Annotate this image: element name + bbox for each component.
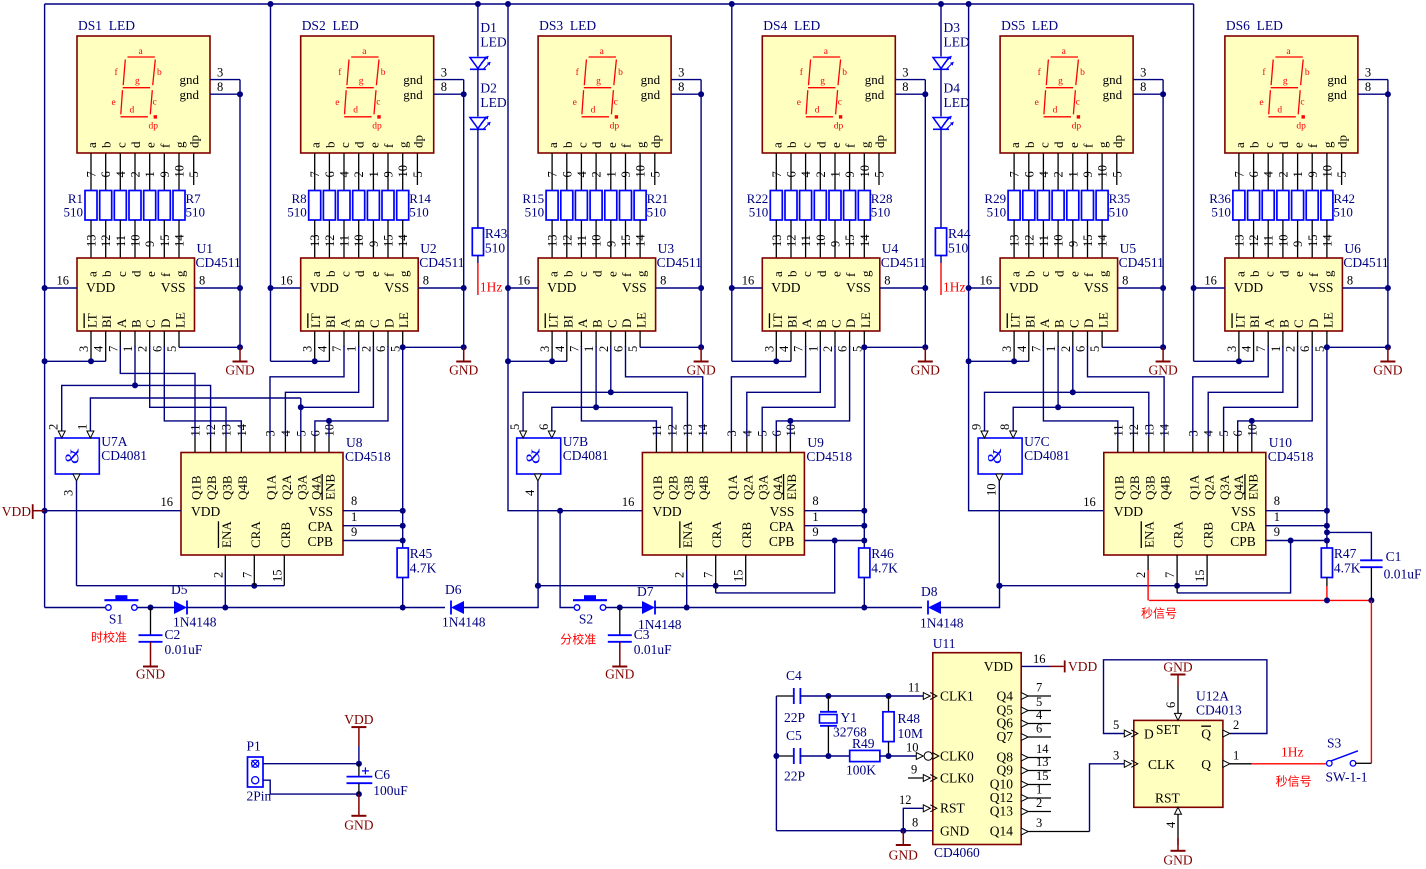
- wire Q3A riser: [300, 398, 302, 437]
- svg-text:g: g: [1283, 77, 1288, 87]
- svg-text:15: 15: [158, 235, 172, 248]
- wire C6 bottom lead: [358, 783, 360, 794]
- svg-text:GND: GND: [940, 824, 969, 839]
- svg-text:3: 3: [762, 346, 776, 352]
- svg-text:9: 9: [1291, 241, 1305, 247]
- svg-text:5: 5: [648, 171, 662, 177]
- junction: [237, 285, 243, 291]
- wire VDD: [45, 510, 181, 512]
- svg-text:3: 3: [538, 346, 552, 352]
- junction: [1324, 344, 1330, 350]
- wire display pin: [1116, 153, 1118, 185]
- pin arrow: [1021, 781, 1028, 788]
- svg-text:d: d: [1276, 141, 1291, 148]
- IC U3 CD4511: [538, 258, 656, 331]
- wire LT/BI tie: [732, 360, 791, 362]
- resistor R36: [1233, 191, 1245, 221]
- ground GND: [619, 642, 621, 667]
- svg-text:0.01uF: 0.01uF: [165, 642, 203, 657]
- svg-text:g: g: [858, 270, 873, 277]
- svg-text:7: 7: [308, 171, 322, 177]
- svg-text:LT: LT: [1232, 313, 1247, 328]
- pin arrow: [916, 753, 923, 760]
- wire display pin: [790, 153, 792, 191]
- wire display pin: [610, 153, 612, 191]
- wire LT/BI tie: [508, 360, 567, 362]
- svg-text:3: 3: [62, 490, 76, 496]
- wire gnd pin 8: [1358, 93, 1388, 95]
- wire: [138, 607, 175, 609]
- junction: [1160, 344, 1166, 350]
- resistor R17: [575, 191, 587, 221]
- junction: [1249, 418, 1255, 424]
- svg-text:f: f: [619, 143, 634, 148]
- svg-text:a: a: [546, 271, 561, 277]
- svg-text:秒信号: 秒信号: [1141, 607, 1177, 621]
- resistor R41: [1306, 191, 1318, 221]
- wire net D1: [164, 346, 241, 437]
- wire resistor pin: [610, 220, 612, 258]
- svg-text:b: b: [322, 142, 337, 149]
- svg-text:13: 13: [770, 235, 784, 248]
- svg-text:f: f: [381, 143, 396, 148]
- svg-text:CD4511: CD4511: [196, 255, 241, 270]
- junction: [900, 828, 906, 834]
- svg-text:2: 2: [1134, 572, 1148, 578]
- svg-text:d: d: [815, 106, 820, 116]
- svg-text:dp: dp: [1072, 122, 1082, 132]
- switch S3 SW-1-1: [1327, 761, 1333, 767]
- wire display pin: [1253, 153, 1255, 191]
- resistor R9: [323, 191, 335, 221]
- svg-text:g: g: [634, 270, 649, 277]
- wire net D2: [776, 346, 849, 437]
- wire resistor pin: [387, 220, 389, 258]
- svg-text:10: 10: [1052, 235, 1066, 248]
- wire CRA pin: [715, 555, 717, 593]
- wire pin stub: [819, 331, 821, 347]
- resistor R3: [114, 191, 126, 221]
- svg-text:GND: GND: [686, 363, 715, 378]
- svg-text:d: d: [128, 141, 143, 148]
- wire resistor pin: [358, 220, 360, 258]
- resistor R6: [158, 191, 170, 221]
- svg-text:4.7K: 4.7K: [871, 561, 898, 576]
- svg-text:10: 10: [814, 235, 828, 248]
- resistor R2: [100, 191, 112, 221]
- svg-text:6: 6: [150, 346, 164, 352]
- wire GND row: [776, 830, 932, 832]
- wire display pin: [1311, 153, 1313, 191]
- svg-text:7: 7: [1029, 346, 1043, 352]
- svg-text:VSS: VSS: [846, 280, 871, 295]
- junction: [1324, 523, 1330, 529]
- resistor R21: [634, 191, 646, 221]
- wire VDD rail block5: [969, 4, 1104, 511]
- junction: [698, 91, 704, 97]
- wire resistor pin: [849, 220, 851, 258]
- resistor R26: [829, 191, 841, 221]
- wire resistor pin: [1282, 220, 1284, 258]
- wire pin stub: [746, 437, 748, 453]
- resistor R32: [1052, 191, 1064, 221]
- svg-text:SET: SET: [1156, 722, 1181, 737]
- svg-text:BI: BI: [1022, 315, 1037, 328]
- svg-text:a: a: [770, 271, 785, 277]
- wire VSS pin 8: [195, 287, 241, 289]
- svg-text:&: &: [984, 448, 1006, 464]
- junction: [42, 285, 48, 291]
- svg-text:3: 3: [1225, 346, 1239, 352]
- svg-text:7: 7: [106, 346, 120, 352]
- wire R48 bottom: [888, 742, 890, 756]
- svg-text:gnd: gnd: [1327, 72, 1347, 87]
- wire pin stub: [1101, 331, 1103, 347]
- wire display pin: [119, 153, 121, 191]
- wire GND vertical: [700, 94, 702, 347]
- resistor R16: [561, 191, 573, 221]
- svg-text:Q4: Q4: [997, 689, 1014, 704]
- wire pin stub: [790, 331, 792, 361]
- svg-text:9: 9: [1081, 171, 1095, 177]
- wire pin stub: [1148, 437, 1150, 453]
- wire gnd pin 3: [895, 79, 925, 81]
- junction: [298, 404, 304, 410]
- wire gnd pin 3: [434, 79, 464, 81]
- svg-text:f: f: [843, 143, 858, 148]
- wire P1 pin1: [263, 763, 359, 765]
- wire display pin: [387, 153, 389, 191]
- wire pin stub: [1253, 331, 1255, 361]
- junction: [268, 285, 274, 291]
- IC U4 CD4511: [762, 258, 880, 331]
- svg-text:VSS: VSS: [1084, 280, 1109, 295]
- wire resistor bottom: [863, 578, 865, 608]
- wire C6 top lead: [358, 764, 360, 776]
- crystal Y1 32768: [827, 696, 829, 711]
- wire: [463, 586, 538, 608]
- svg-text:d: d: [1053, 106, 1058, 116]
- pin arrow: [1021, 707, 1028, 714]
- junction: [861, 344, 867, 350]
- wire pin stub: [225, 437, 227, 453]
- wire: [606, 607, 642, 609]
- wire Q pin 7: [1028, 695, 1051, 697]
- svg-text:6: 6: [1298, 346, 1312, 352]
- IC U11 CD4060: [933, 653, 1021, 845]
- svg-text:c: c: [114, 271, 129, 277]
- wire display pin: [863, 153, 865, 191]
- wire pin stub: [1057, 331, 1059, 347]
- svg-text:VDD: VDD: [984, 659, 1013, 674]
- wire: [187, 607, 445, 609]
- wire CRB pin: [283, 555, 285, 586]
- wire display pin: [193, 153, 195, 185]
- wire net C: [985, 392, 1149, 437]
- junction: [42, 358, 48, 364]
- wire pin stub: [834, 331, 836, 347]
- svg-text:4.7K: 4.7K: [410, 561, 437, 576]
- wire pin stub: [1207, 437, 1209, 453]
- wire display pin: [878, 153, 880, 185]
- svg-text:CLK0: CLK0: [940, 771, 974, 786]
- svg-text:DS4 LED: DS4 LED: [763, 18, 820, 33]
- junction: [237, 91, 243, 97]
- wire display pin: [566, 153, 568, 191]
- wire resistor pin: [90, 220, 92, 258]
- svg-text:d: d: [589, 141, 604, 148]
- svg-text:12: 12: [785, 235, 799, 248]
- wire CPA pin: [1266, 525, 1327, 527]
- svg-text:4: 4: [553, 345, 567, 352]
- wire display pin: [1057, 153, 1059, 191]
- wire display pin: [639, 153, 641, 191]
- svg-text:10: 10: [858, 165, 872, 178]
- svg-text:CD4060: CD4060: [934, 845, 980, 860]
- power VDD: [1064, 660, 1066, 672]
- wire VDD rail block6: [1193, 4, 1195, 361]
- capacitor C3 0.01uF: [608, 634, 632, 636]
- svg-text:VSS: VSS: [622, 280, 647, 295]
- wire net C1: [150, 346, 226, 437]
- wire 秒信号 red row: [1149, 599, 1371, 601]
- svg-text:b: b: [381, 68, 386, 78]
- wire Q pin 6: [1028, 736, 1051, 738]
- svg-text:e: e: [367, 271, 382, 277]
- svg-text:gnd: gnd: [641, 72, 661, 87]
- svg-text:U9: U9: [807, 435, 824, 450]
- svg-text:e: e: [604, 142, 619, 148]
- svg-text:RST: RST: [1155, 791, 1181, 806]
- svg-text:4: 4: [1015, 345, 1029, 352]
- junction: [505, 285, 511, 291]
- wire pin stub: [269, 437, 271, 453]
- svg-text:GND: GND: [136, 667, 165, 682]
- wire red to S3: [1370, 600, 1372, 763]
- switch S2: [573, 599, 607, 601]
- junction: [461, 285, 467, 291]
- svg-text:R43: R43: [485, 226, 508, 241]
- wire resistor pin: [1238, 220, 1240, 258]
- wire resistor pin: [402, 220, 404, 258]
- svg-text:f: f: [382, 272, 397, 277]
- junction: [922, 344, 928, 350]
- svg-text:100uF: 100uF: [373, 783, 408, 798]
- svg-text:5: 5: [1335, 171, 1349, 177]
- junction: [713, 583, 719, 589]
- svg-text:C1: C1: [1386, 549, 1402, 564]
- wire VDD pin 16: [969, 287, 1001, 289]
- svg-text:3: 3: [441, 66, 447, 80]
- wire VSS pin: [343, 510, 403, 512]
- svg-text:6: 6: [1022, 171, 1036, 177]
- svg-text:e: e: [1066, 271, 1081, 277]
- svg-text:1: 1: [1291, 171, 1305, 177]
- junction: [132, 382, 138, 388]
- wire pin stub: [1282, 331, 1284, 347]
- svg-text:GND: GND: [1163, 660, 1192, 675]
- wire resistor lead: [477, 256, 479, 264]
- svg-text:d: d: [130, 106, 135, 116]
- capacitor C6 100uF: [347, 776, 373, 778]
- wire VSS pin: [1266, 510, 1327, 512]
- wire net D: [626, 346, 703, 437]
- svg-text:c: c: [575, 271, 590, 277]
- svg-text:9: 9: [1066, 241, 1080, 247]
- junction: [1191, 285, 1197, 291]
- pin arrow: [923, 693, 930, 700]
- svg-text:5: 5: [411, 171, 425, 177]
- wire pin stub: [1237, 437, 1239, 453]
- wire pin stub: [805, 331, 807, 347]
- wire VDD pin 16: [508, 287, 538, 289]
- svg-text:7: 7: [546, 171, 560, 177]
- svg-text:d: d: [814, 270, 829, 277]
- junction: [773, 753, 779, 759]
- wire resistor pin: [639, 220, 641, 258]
- svg-text:R44: R44: [948, 226, 971, 241]
- junction: [535, 583, 541, 589]
- svg-text:1: 1: [1233, 748, 1239, 762]
- wire CRA pin: [253, 555, 255, 586]
- svg-text:gnd: gnd: [403, 72, 423, 87]
- svg-text:U1: U1: [197, 241, 214, 256]
- junction: [1160, 91, 1166, 97]
- svg-text:10: 10: [129, 235, 143, 248]
- wire resistor pin: [595, 220, 597, 258]
- pin arrow: [1223, 760, 1230, 767]
- svg-text:R49: R49: [852, 736, 875, 751]
- svg-text:B: B: [1276, 319, 1291, 328]
- svg-text:GND: GND: [1163, 853, 1192, 868]
- svg-text:D5: D5: [171, 582, 188, 597]
- svg-text:7: 7: [1163, 572, 1177, 578]
- wire display pin: [1297, 153, 1299, 191]
- svg-text:U6: U6: [1344, 241, 1361, 256]
- svg-text:dp: dp: [872, 135, 887, 148]
- display DS2: [301, 18, 434, 153]
- wire pin stub: [314, 437, 316, 453]
- svg-text:11: 11: [908, 681, 920, 695]
- resistor R39: [1277, 191, 1289, 221]
- junction: [832, 538, 838, 544]
- svg-text:10: 10: [1276, 235, 1290, 248]
- svg-text:P1: P1: [247, 739, 261, 754]
- diode D7 1N4148: [642, 601, 655, 614]
- wire Q pin 5: [1028, 710, 1051, 712]
- resistor R12: [367, 191, 379, 221]
- svg-text:5: 5: [626, 346, 640, 352]
- svg-text:5: 5: [1088, 346, 1102, 352]
- svg-text:CRB: CRB: [739, 522, 754, 548]
- svg-text:4: 4: [777, 345, 791, 352]
- svg-text:7: 7: [792, 346, 806, 352]
- junction: [356, 761, 362, 767]
- svg-text:13: 13: [1008, 235, 1022, 248]
- svg-text:dp: dp: [187, 135, 202, 148]
- svg-text:DS1 LED: DS1 LED: [78, 18, 135, 33]
- junction: [505, 358, 511, 364]
- svg-text:6: 6: [560, 171, 574, 177]
- connector P1 2Pin: [248, 757, 264, 787]
- svg-text:e: e: [797, 98, 801, 108]
- svg-text:&: &: [61, 448, 83, 464]
- wire net B2: [747, 346, 821, 437]
- LED D3: [940, 4, 942, 57]
- wire net C stub: [1072, 346, 1074, 392]
- svg-text:8: 8: [441, 80, 447, 94]
- svg-text:510: 510: [186, 205, 206, 220]
- svg-text:g: g: [359, 77, 364, 87]
- svg-text:dp: dp: [372, 122, 382, 132]
- svg-text:ENB: ENB: [1245, 474, 1260, 500]
- svg-text:16: 16: [280, 274, 293, 288]
- wire RST pin: [1177, 807, 1179, 845]
- svg-text:1: 1: [1269, 346, 1283, 352]
- svg-text:16: 16: [161, 495, 174, 509]
- junction: [825, 693, 831, 699]
- pin arrow: [1021, 795, 1028, 802]
- svg-text:C: C: [829, 319, 844, 328]
- wire pin stub: [358, 331, 360, 347]
- svg-text:1: 1: [75, 424, 89, 430]
- wire ENA red: [1147, 570, 1149, 600]
- wire CLK1 row: [800, 695, 926, 697]
- svg-text:Q1A: Q1A: [725, 474, 740, 500]
- wire net C2: [1224, 346, 1298, 437]
- svg-text:12: 12: [1022, 235, 1036, 248]
- svg-text:1: 1: [812, 510, 818, 524]
- wire pin stub: [1087, 331, 1089, 347]
- wire resistor pin: [119, 220, 121, 258]
- svg-text:1: 1: [367, 171, 381, 177]
- wire display pin: [551, 153, 553, 191]
- wire display gnd to GND: [1387, 80, 1389, 95]
- wire resistor pin: [863, 220, 865, 258]
- svg-text:SW-1-1: SW-1-1: [1326, 770, 1368, 785]
- svg-text:d: d: [813, 141, 828, 148]
- svg-text:a: a: [545, 142, 560, 148]
- wire Q pin 15: [1028, 784, 1051, 786]
- svg-text:gnd: gnd: [403, 87, 423, 102]
- ground GND: [449, 347, 478, 377]
- wire SET pin: [1177, 686, 1179, 713]
- junction: [966, 285, 972, 291]
- wire net A2: [1193, 346, 1268, 437]
- svg-text:U10: U10: [1269, 435, 1292, 450]
- wire net 1Hz: [477, 263, 479, 295]
- svg-text:Q3B: Q3B: [220, 475, 235, 500]
- wire CPB loop: [1177, 541, 1291, 593]
- svg-text:D6: D6: [445, 582, 462, 597]
- wire resistor pin: [1013, 220, 1015, 258]
- svg-text:510: 510: [485, 241, 506, 256]
- wire pin stub: [1192, 437, 1194, 453]
- svg-text:dp: dp: [149, 122, 159, 132]
- resistor R42: [1321, 191, 1333, 221]
- svg-text:10: 10: [590, 235, 604, 248]
- svg-text:b: b: [1080, 68, 1085, 78]
- junction: [1368, 597, 1374, 603]
- svg-text:510: 510: [1211, 205, 1231, 220]
- svg-text:U11: U11: [933, 636, 956, 651]
- svg-text:8: 8: [1140, 80, 1146, 94]
- svg-text:3: 3: [1113, 748, 1119, 762]
- wire pin stub: [1132, 437, 1134, 453]
- wire resistor pin: [105, 220, 107, 258]
- svg-text:16: 16: [1083, 495, 1096, 509]
- resistor R33: [1067, 191, 1079, 221]
